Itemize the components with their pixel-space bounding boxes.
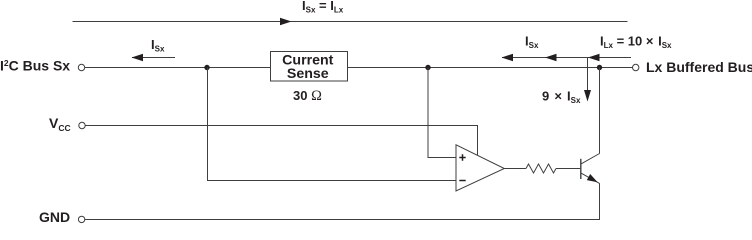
node: junction A at (207,67.5): [204, 65, 209, 70]
terminal: I2C Bus Sx open circle: [78, 64, 84, 70]
svg-text:Sense: Sense: [287, 66, 329, 82]
arrowhead on top annotation line (pointing right): [280, 18, 292, 26]
arrow: 9 x ISx downward: [587, 58, 589, 92]
transistor Q1 base bar: [580, 159, 582, 179]
component: Current Sense box: [271, 52, 348, 82]
op-amp U1: [456, 145, 504, 191]
wire: op-amp output: [504, 168, 526, 170]
wire: Vcc supply to op-amp: [85, 126, 477, 156]
svg-text:GND: GND: [39, 209, 70, 224]
wire: collector rail up to junction C: [599, 68, 601, 154]
wire: emitter rail down to ground line: [599, 183, 601, 219]
terminal: Vcc open circle: [79, 122, 85, 128]
transistor Q1 collector: [581, 154, 600, 165]
svg-text:Lx Buffered Bus: Lx Buffered Bus: [646, 59, 752, 75]
wire: ground line: [85, 219, 600, 221]
arrow: ISx / ILx current annotation (right side): [502, 57, 631, 59]
wire: bus left segment: [85, 67, 271, 69]
resistor R1 (base resistor zigzag): [526, 164, 556, 173]
wire: junction B down and to op-amp non-inverting input: [428, 68, 456, 158]
terminal: GND open circle: [78, 216, 84, 222]
node: junction B at (428,67.5): [425, 65, 430, 70]
wire: resistor to transistor base: [556, 168, 580, 170]
transistor Q1 emitter arrowhead: [587, 174, 598, 182]
arrow: ISx current direction (left side): [132, 57, 175, 59]
wire: junction A down and to op-amp inverting input: [208, 68, 457, 181]
svg-text:I2C Bus Sx: I2C Bus Sx: [0, 57, 70, 73]
op-amp plus input marker: [459, 154, 465, 160]
terminal: Lx Buffered Bus open circle: [633, 64, 639, 70]
op-amp minus input marker: [459, 180, 465, 182]
wire: bus right segment: [348, 67, 633, 69]
transistor Q1 emitter: [581, 173, 600, 184]
node: junction C at (599.5,67.5): [597, 65, 602, 70]
wire: top feedback annotation line ISx = ILx: [73, 21, 628, 23]
svg-text:30 Ω: 30 Ω: [293, 88, 322, 104]
